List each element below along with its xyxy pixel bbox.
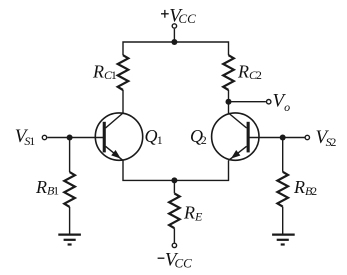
svg-text:Vo: Vo bbox=[273, 91, 291, 114]
svg-text:VCC: VCC bbox=[165, 249, 192, 270]
svg-text:RE: RE bbox=[183, 203, 203, 224]
svg-text:Q1: Q1 bbox=[145, 126, 163, 147]
svg-text:Q2: Q2 bbox=[190, 126, 207, 147]
svg-text:VS2: VS2 bbox=[316, 127, 337, 149]
svg-text:RC2: RC2 bbox=[237, 62, 262, 83]
svg-text:RB1: RB1 bbox=[35, 177, 59, 198]
svg-text:RC1: RC1 bbox=[92, 62, 117, 83]
svg-text:RB2: RB2 bbox=[293, 177, 317, 198]
svg-text:VS1: VS1 bbox=[15, 126, 35, 148]
svg-text:VCC: VCC bbox=[169, 6, 196, 27]
